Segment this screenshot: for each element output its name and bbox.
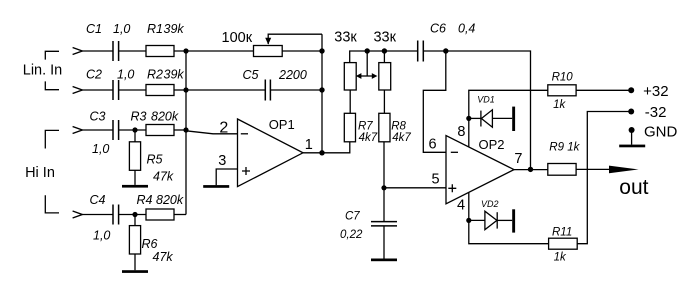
svg-text:C5: C5 [243,68,259,82]
potentiometer 33k left body [344,63,356,90]
resistor R6 [129,226,140,254]
diode VD2 wire left [469,219,485,221]
diode VD2 wire right [497,219,512,221]
wire OP2 out to R9 [514,169,548,171]
svg-text:R9 1k: R9 1k [549,142,580,154]
wire node to R5 [134,130,136,142]
wire R1 to pot 100k [174,50,254,52]
svg-text:GND: GND [644,124,678,141]
terminal -32 [628,109,634,115]
node row2 summing [183,87,188,92]
node C5 right [319,87,324,92]
ground under R5 [122,185,148,188]
wire node to R6 [134,215,136,226]
svg-text:2: 2 [219,120,228,137]
node C3-R5 [132,127,137,132]
capacitor C5 [265,80,270,101]
OP1 minus sign [241,133,248,135]
diode VD2 triangle [485,211,497,230]
svg-text:out: out [619,176,648,199]
wire row2 left [82,89,113,91]
svg-text:7: 7 [514,151,522,167]
GND ground bar [619,145,645,148]
svg-text:C3: C3 [90,110,106,124]
wire R4 to summing line [174,214,186,216]
VD2 terminal bar [512,209,515,232]
diode VD1 wire left [469,117,481,119]
wire C4 to R4 [119,214,146,216]
resistor R10 [548,85,576,96]
input arrow row2 [73,87,83,94]
svg-text:R5: R5 [147,153,163,167]
node OP1 output [319,150,324,155]
svg-text:+32: +32 [643,83,668,100]
wire R9 to out arrow [576,168,610,170]
node 33k right pot [382,48,387,53]
OP1 plus sign [242,167,250,175]
svg-text:1,0: 1,0 [92,142,109,156]
svg-text:Hi In: Hi In [25,165,55,181]
op-amp OP1 [238,119,304,187]
resistor R3 [146,125,174,136]
node VD1 anode [466,116,471,121]
wire pin4 [469,192,549,243]
wire C7 to ground [383,226,385,259]
capacitor C3 [113,120,119,140]
svg-text:4: 4 [457,198,465,214]
svg-text:1k: 1k [554,252,567,264]
input arrow row1 [73,48,83,55]
svg-text:1: 1 [305,137,313,153]
svg-text:R3: R3 [131,110,147,124]
svg-text:47k: 47k [153,170,174,184]
pot 100k wiper arrowhead [265,38,271,45]
svg-text:8: 8 [457,124,465,140]
Lin. In bracket bottom [45,81,59,89]
diode VD1 triangle [481,110,492,127]
svg-text:1,0: 1,0 [93,229,110,243]
wire pin5 node to C7 [383,188,385,222]
wiper arrowhead right [372,73,378,79]
ground under R6 [122,270,148,273]
ground at pin3 [203,185,229,188]
wire R11 to -32 [577,112,631,244]
capacitor C6 [418,41,424,62]
capacitor C4 [113,205,119,225]
wire [119,50,146,52]
svg-text:Lin. In: Lin. In [23,63,63,79]
terminal +32 [628,87,634,93]
svg-text:1k: 1k [553,99,566,111]
resistor R9 [548,164,576,176]
capacitor C2 [113,80,119,100]
pot 100k wiper wire [268,34,322,44]
svg-text:39k: 39k [164,68,185,82]
svg-text:1,0: 1,0 [117,68,134,82]
svg-text:6: 6 [428,137,436,153]
svg-text:OP1: OP1 [269,117,295,132]
op-amp OP2 [446,136,514,204]
svg-text:47k: 47k [153,250,174,264]
svg-text:33к: 33к [373,30,396,46]
svg-text:100к: 100к [222,30,253,46]
Hi In bracket top [45,130,59,148]
wire R3 to node [174,129,186,131]
OP2 minus sign [451,151,458,153]
svg-text:R6: R6 [142,237,158,251]
svg-text:C2: C2 [86,68,102,82]
wire R8 to pin5 node [383,142,385,188]
svg-text:5: 5 [431,172,439,188]
node OP2 output [528,167,533,172]
capacitor C1 [113,41,119,61]
resistor R11 [549,238,578,249]
node C6 right [443,48,448,53]
svg-text:33к: 33к [334,30,357,46]
wire row1 left [82,50,113,52]
input arrow row3 [73,127,83,134]
resistor R5 [129,142,140,171]
svg-text:VD2: VD2 [481,199,499,209]
svg-text:-32: -32 [645,104,667,121]
feedback vertical wire [321,34,323,153]
svg-text:R10: R10 [552,72,574,84]
input arrow row4 [73,211,83,218]
svg-text:R8: R8 [391,121,406,133]
svg-text:1,0: 1,0 [113,22,130,36]
wire R10 to +32 [576,89,631,91]
wire [119,89,146,91]
svg-text:R11: R11 [552,226,572,238]
potentiometer 33k right body [379,63,391,90]
svg-text:39k: 39k [164,22,185,36]
wire R5 to ground [134,170,136,185]
svg-text:R2: R2 [147,68,163,82]
diode VD1 cathode bar [480,111,482,127]
wire left pot to R7 [349,90,351,113]
resistor R8 [379,113,390,142]
wire R6 to ground [134,254,136,270]
node row3 summing [183,127,188,132]
GND terminal stub [631,130,633,145]
out arrowhead [609,166,639,174]
svg-text:C4: C4 [90,193,106,207]
svg-text:R1: R1 [147,22,163,36]
svg-text:R7: R7 [358,121,373,133]
node VD2 anode [466,218,471,223]
wire pot to node [282,50,322,52]
Hi In bracket bottom [45,195,59,213]
svg-text:R4: R4 [137,193,153,207]
OP2 plus sign [448,184,456,192]
wire C3 to R3 [119,129,146,131]
wire R2 to node [174,89,186,91]
potentiometer 100k body [254,46,283,57]
svg-text:0,4: 0,4 [458,22,475,36]
wire pin5 [384,187,446,189]
node 33k wiper [365,48,370,53]
resistor R2 [146,85,174,96]
wire C5 to feedback node [270,89,322,91]
svg-text:C1: C1 [86,22,102,36]
svg-text:820k: 820k [156,193,184,207]
wire right pot to R8 [383,90,385,113]
svg-text:OP2: OP2 [478,137,504,152]
wire right pot top [383,51,385,63]
wiper double arrow line [361,75,373,77]
svg-text:C6: C6 [430,22,446,36]
wire pin2 [186,131,238,134]
wire OP1 output [303,142,350,153]
resistor R4 [146,209,174,220]
wire row3 left [82,129,113,131]
node C4-R6 [132,212,137,217]
wire pin8 [469,90,548,147]
svg-text:VD1: VD1 [477,95,495,105]
svg-text:3: 3 [218,153,226,169]
wire node to C5 [186,89,265,91]
svg-text:0,22: 0,22 [340,229,363,241]
Lin. In bracket top [45,51,59,59]
svg-text:4k7: 4k7 [392,132,411,144]
summing node vertical wire [185,51,187,215]
wiper stub 33k [366,51,368,76]
33k pot top wire [350,51,418,63]
capacitor C7 [371,222,397,226]
terminal GND [629,127,635,133]
resistor R1 [146,46,174,57]
node pin5 [381,185,386,190]
svg-text:820k: 820k [151,110,179,124]
svg-text:2200: 2200 [278,68,307,82]
wiper arrowhead left [356,73,362,79]
node row1 summing [183,48,188,53]
resistor R7 [344,113,355,142]
ground under C7 [371,259,397,262]
diode VD2 cathode bar [496,212,498,228]
wire pin6 [423,51,446,152]
wire C6 to OP2 output [423,51,530,170]
wire pin3 [216,169,237,185]
svg-text:C7: C7 [345,210,360,222]
diode VD1 wire right [492,117,512,119]
svg-text:4k7: 4k7 [359,132,378,144]
wire row4 left [82,214,113,216]
node pot100k right [319,48,324,53]
VD1 terminal bar [512,107,515,131]
